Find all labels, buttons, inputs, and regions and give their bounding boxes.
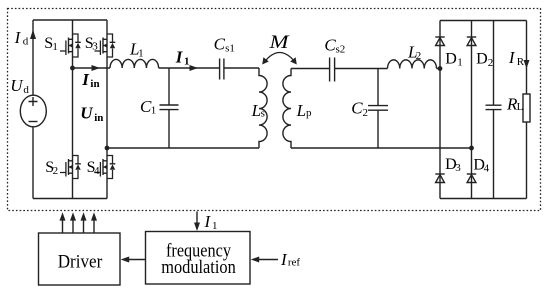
- svg-text:Driver: Driver: [58, 252, 103, 273]
- svg-text:4: 4: [94, 165, 100, 177]
- svg-text:3: 3: [455, 162, 461, 174]
- svg-text:s2: s2: [336, 44, 346, 56]
- svg-text:U: U: [10, 76, 24, 95]
- svg-text:L: L: [296, 101, 306, 120]
- svg-text:U: U: [80, 104, 93, 123]
- svg-text:d: d: [23, 36, 29, 48]
- svg-text:L: L: [251, 101, 261, 120]
- svg-text:I: I: [14, 28, 22, 47]
- svg-text:4: 4: [484, 163, 490, 175]
- svg-text:C: C: [214, 35, 226, 54]
- svg-text:p: p: [306, 107, 312, 119]
- svg-text:in: in: [90, 78, 99, 90]
- svg-text:D: D: [445, 50, 457, 67]
- svg-text:I: I: [81, 70, 90, 89]
- svg-text:1: 1: [52, 41, 58, 53]
- svg-text:modulation: modulation: [161, 258, 236, 278]
- svg-text:1: 1: [184, 55, 190, 67]
- svg-text:1: 1: [138, 47, 144, 59]
- svg-text:1: 1: [212, 220, 218, 232]
- svg-text:I: I: [175, 47, 184, 66]
- svg-text:2: 2: [488, 57, 494, 69]
- svg-text:M: M: [268, 32, 290, 53]
- svg-text:C: C: [351, 99, 363, 118]
- svg-text:2: 2: [53, 165, 59, 177]
- svg-text:in: in: [94, 112, 103, 124]
- svg-text:1: 1: [457, 57, 463, 69]
- svg-text:3: 3: [92, 41, 98, 53]
- svg-text:s: s: [261, 108, 265, 120]
- svg-text:ref: ref: [288, 257, 301, 269]
- svg-text:R: R: [517, 56, 525, 68]
- svg-text:s1: s1: [225, 43, 235, 55]
- svg-text:d: d: [23, 84, 29, 96]
- svg-text:2: 2: [416, 50, 422, 62]
- svg-text:I: I: [508, 48, 516, 67]
- svg-text:1: 1: [151, 105, 157, 117]
- svg-text:I: I: [280, 250, 288, 269]
- svg-text:I: I: [204, 212, 212, 231]
- svg-text:D: D: [476, 51, 488, 68]
- svg-text:2: 2: [363, 107, 369, 119]
- svg-text:L: L: [517, 101, 524, 113]
